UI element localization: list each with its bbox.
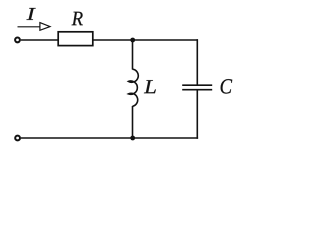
terminal (top-left input) [15, 38, 20, 43]
terminal (bottom-left input) [15, 136, 20, 141]
resistor R [58, 32, 93, 46]
capacitor C bottom plate [182, 89, 212, 91]
wire (capacitor bottom plate down to bottom wire) [196, 90, 198, 139]
current arrow [18, 23, 51, 31]
label L [144, 80, 156, 93]
wire (top junction down to inductor) [132, 40, 134, 70]
node (top junction dot) [130, 38, 135, 43]
inductor L [129, 69, 139, 106]
wire (resistor to top-right corner) [93, 39, 198, 41]
label R [72, 12, 83, 25]
label I (current) [27, 8, 36, 20]
capacitor C top plate [182, 84, 212, 86]
wire (inductor down to bottom junction) [132, 106, 134, 138]
wire (right branch, top corner down to capacitor top plate) [196, 39, 198, 85]
wire (bottom rail, left terminal to right branch) [21, 137, 198, 139]
wire (top-left terminal to resistor) [21, 39, 59, 41]
label C [221, 79, 233, 93]
node (bottom junction dot) [130, 136, 135, 141]
